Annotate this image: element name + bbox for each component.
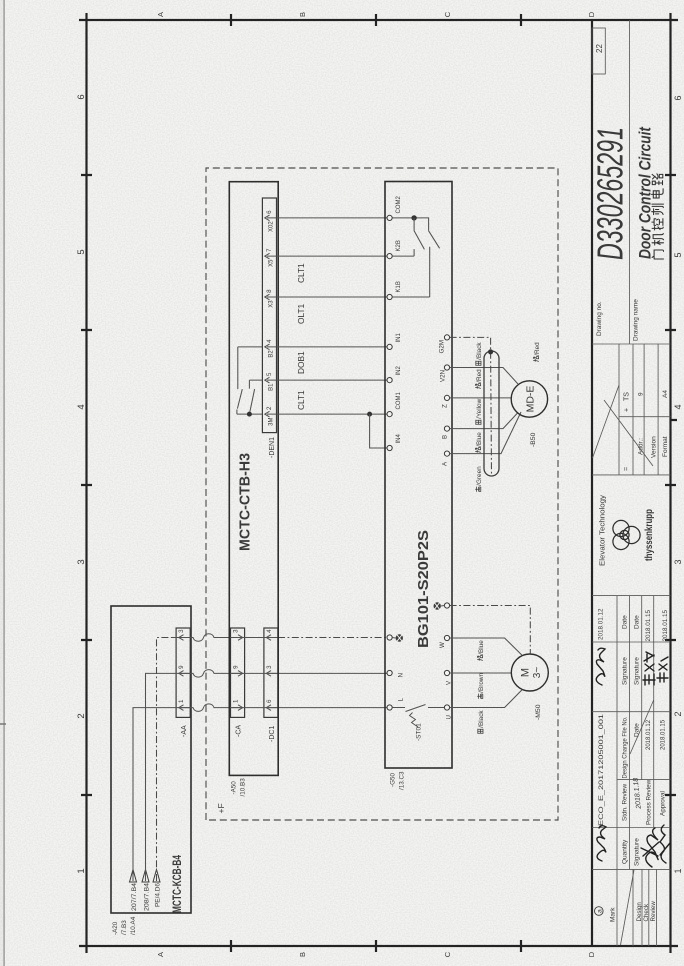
hanzi lu <box>652 174 663 185</box>
BG pin IN2 <box>387 377 392 382</box>
block MCTC-CTB-H3 (-A50) <box>229 182 278 776</box>
CTB internal net 3M <box>237 410 263 415</box>
svg-text:Date: Date <box>634 615 641 629</box>
BG pin K1B <box>387 294 392 299</box>
CTB contact blade OLT1 <box>250 389 255 412</box>
BG pin B <box>444 426 449 431</box>
svg-text:U: U <box>446 715 453 719</box>
label U wire black <box>478 710 485 734</box>
drawing name chinese 门机控制电路 <box>652 174 664 259</box>
svg-text:DOB1: DOB1 <box>296 351 306 374</box>
BG contact blade K1B <box>429 231 440 249</box>
svg-text:K2B: K2B <box>396 240 402 251</box>
label W wire blue <box>477 640 485 661</box>
svg-text:Signature: Signature <box>634 657 641 685</box>
svg-text:2: 2 <box>76 713 87 718</box>
wire X3/8 to K1B <box>277 296 387 298</box>
svg-text:1: 1 <box>673 868 683 873</box>
svg-text:COM1: COM1 <box>396 392 402 410</box>
svg-text:M: M <box>520 668 532 677</box>
svg-text:+: + <box>624 408 631 412</box>
svg-text:6: 6 <box>266 210 273 214</box>
svg-text:/Red: /Red <box>476 369 483 383</box>
svg-text:Version: Version <box>650 436 657 458</box>
mark symbol circled a <box>595 907 604 916</box>
BG internal branch to blade1 <box>413 218 415 231</box>
pins -DC1 (6,3,4) arrows up <box>266 635 277 711</box>
svg-text:6: 6 <box>673 95 683 100</box>
wire 3M/2 to COM1 <box>277 413 387 415</box>
BG pin COM2 <box>387 215 392 220</box>
svg-text:Format: Format <box>662 436 669 457</box>
encoder wire V2N red <box>450 368 518 385</box>
svg-text:TS: TS <box>624 392 631 401</box>
signature scribble sig r1 <box>596 648 605 685</box>
svg-text:B2: B2 <box>269 350 275 358</box>
svg-text:2018.01.15: 2018.01.15 <box>661 719 667 750</box>
frame ticks bottom edge <box>665 13 678 953</box>
block BG101-S20P2S (-G50) <box>385 182 452 769</box>
frame ticks side edges <box>231 14 521 952</box>
junction dot shield <box>488 349 493 354</box>
svg-text:=: = <box>624 467 631 471</box>
cable wire col2 (9/9/3 to N) <box>172 670 387 678</box>
svg-text:/10.A4: /10.A4 <box>130 916 137 935</box>
ruler numbers top <box>76 94 87 873</box>
svg-text:207/7.B4: 207/7.B4 <box>131 882 138 911</box>
svg-text:/Yellow: /Yellow <box>476 398 483 418</box>
svg-text:MCTC-CTB-H3: MCTC-CTB-H3 <box>238 453 254 551</box>
svg-text:B: B <box>298 952 307 957</box>
wire branch to IN4 <box>370 414 387 448</box>
svg-text:3M: 3M <box>269 418 275 426</box>
svg-text:IN4: IN4 <box>396 434 402 444</box>
version table diagonal 2 <box>604 400 653 466</box>
svg-text:/Red: /Red <box>534 342 541 356</box>
svg-text:/Brown: /Brown <box>478 672 485 692</box>
svg-text:W: W <box>439 642 446 648</box>
svg-text:5: 5 <box>76 249 87 254</box>
svg-text:X02: X02 <box>269 221 275 232</box>
frame ticks top edge <box>79 13 92 953</box>
label V wire brown <box>477 672 485 698</box>
off-page arrow 207 <box>130 870 137 883</box>
BG pin W <box>444 635 449 640</box>
svg-text:Approval: Approval <box>660 791 667 816</box>
svg-text:4: 4 <box>673 404 683 409</box>
svg-text:C: C <box>443 951 452 957</box>
diagonal slash eco column <box>630 700 654 754</box>
title block grid lines <box>592 20 671 946</box>
wire 207 <box>133 708 172 881</box>
motor -M50 <box>511 654 548 691</box>
designator -A50 <box>231 778 247 797</box>
hanzi kong <box>652 219 663 230</box>
screen dash-dot inside capsule <box>490 352 493 474</box>
cable wire col1 (1/1/6 to L) <box>172 704 387 712</box>
svg-text:4: 4 <box>76 404 87 409</box>
svg-text:Signature: Signature <box>621 657 628 685</box>
svg-text:9: 9 <box>637 392 644 396</box>
svg-text:/Black: /Black <box>478 710 485 728</box>
ruler numbers bottom <box>673 95 683 873</box>
label yellow <box>476 398 483 424</box>
version table diagonal 1 <box>593 385 620 458</box>
BG pin IN1 <box>387 344 392 349</box>
svg-text:-DEN1: -DEN1 <box>269 437 276 458</box>
svg-text:/Blue: /Blue <box>478 640 485 655</box>
label green <box>475 466 483 492</box>
motor shield dash-dot <box>450 606 531 654</box>
svg-text:-AA: -AA <box>181 725 188 737</box>
BG internal COM2 wire <box>392 218 428 231</box>
CTB contact blade CLT1 <box>237 389 242 409</box>
signature scribble quantity r1 <box>597 826 606 861</box>
ruler letters left <box>156 951 596 957</box>
svg-text:Date: Date <box>634 723 641 737</box>
svg-text:Drawing name: Drawing name <box>632 299 639 341</box>
svg-text:3: 3 <box>233 629 240 633</box>
svg-text:3~: 3~ <box>532 667 543 679</box>
svg-text:Stdn. Review: Stdn. Review <box>621 783 628 821</box>
svg-text:L: L <box>398 698 405 702</box>
boundary +F dashed rect <box>206 168 558 820</box>
encoder wire A green <box>450 412 521 454</box>
BG pin L <box>387 705 392 710</box>
svg-text:Addr.:: Addr.: <box>637 438 644 455</box>
encoder wire Z yellow <box>450 397 512 399</box>
svg-text:Elevator Technology: Elevator Technology <box>599 494 606 566</box>
signature scribble quantity r4 <box>641 828 659 867</box>
svg-text:8: 8 <box>266 289 273 293</box>
svg-text:G2M: G2M <box>439 340 446 353</box>
svg-text:Door Control Circuit: Door Control Circuit <box>636 126 654 259</box>
motor wire W blue <box>450 638 522 655</box>
shield earth symbol <box>434 602 445 609</box>
CTB contact fixed B2 <box>238 347 263 389</box>
hanzi dian <box>652 189 664 198</box>
off-page arrow 208 <box>142 870 149 883</box>
wire PE dash-dot <box>157 638 173 882</box>
svg-text:-A20: -A20 <box>112 921 119 935</box>
svg-text:2: 2 <box>266 406 273 410</box>
BG contact fixed K1B <box>392 247 430 297</box>
cable wire col3 PE (3/3/4 to PE) <box>172 634 278 642</box>
designator -G50 <box>390 771 406 790</box>
thermal actuator squiggle <box>410 713 419 728</box>
svg-text:3: 3 <box>673 559 683 564</box>
pins -DEN1 arrows up <box>265 215 276 417</box>
BG pin PE <box>387 635 392 640</box>
wire B1/5 to IN2 <box>277 379 387 381</box>
BG pin N <box>387 670 392 675</box>
cable screen capsule <box>484 351 499 476</box>
BG pin A <box>444 451 449 456</box>
svg-text:A4: A4 <box>662 390 669 398</box>
label black enc <box>476 342 483 366</box>
svg-text:X5: X5 <box>269 259 275 267</box>
junction dot COM2 <box>411 215 416 220</box>
svg-text:V2N: V2N <box>440 370 447 382</box>
thyssenkrupp rings logo <box>613 520 640 549</box>
terminal strip -AA <box>176 628 190 717</box>
BG internal switch -ST01 <box>392 705 444 712</box>
pin names -DEN1 <box>269 221 275 426</box>
svg-text:22: 22 <box>595 44 604 53</box>
svg-text:MD-E: MD-E <box>525 386 537 413</box>
svg-text:2018.01.15: 2018.01.15 <box>662 609 669 641</box>
svg-text:9: 9 <box>233 665 240 669</box>
svg-text:/Black: /Black <box>476 342 483 360</box>
svg-text:-B50: -B50 <box>530 432 537 447</box>
svg-text:1: 1 <box>76 868 87 873</box>
svg-text:X3: X3 <box>269 300 275 308</box>
svg-text:3: 3 <box>266 665 273 669</box>
scan edge line left <box>0 0 3 966</box>
wire PE lower dash-dot <box>278 637 387 639</box>
hanzi men <box>652 250 663 259</box>
svg-text:A: A <box>156 12 165 17</box>
pins -AA (1,9,3) <box>179 635 190 711</box>
svg-text:CLT1: CLT1 <box>296 263 306 283</box>
svg-text:Review: Review <box>650 901 657 922</box>
svg-text:BG101-S20P2S: BG101-S20P2S <box>415 530 432 648</box>
label blue enc <box>475 432 483 453</box>
signature scribble hanzi r5 <box>657 657 668 682</box>
svg-text:/10.B3: /10.B3 <box>240 778 247 797</box>
svg-text:6: 6 <box>266 699 273 703</box>
motor wire U black <box>450 690 522 708</box>
svg-text:Quantity: Quantity <box>621 839 628 864</box>
pin numbers -DEN1 <box>266 210 273 410</box>
terminal strip -CA <box>231 628 245 717</box>
BG pin COM1 <box>387 411 392 416</box>
fold mark top <box>0 723 6 725</box>
BG pin IN4 <box>387 445 392 450</box>
junction dot 3M/B1 blade <box>247 412 252 417</box>
label red enc <box>475 369 483 389</box>
svg-text:4: 4 <box>266 629 273 633</box>
BG contact blade K2B <box>414 231 424 250</box>
terminal strip -DEN1 <box>262 198 276 433</box>
svg-text:a: a <box>597 909 604 913</box>
BG pin G2M <box>444 335 449 340</box>
ruler letters right <box>156 11 596 17</box>
svg-text:A: A <box>156 952 165 957</box>
svg-text:K1B: K1B <box>396 281 402 292</box>
svg-text:1: 1 <box>178 699 185 703</box>
svg-text:Check: Check <box>643 903 650 921</box>
svg-text:D: D <box>587 951 596 957</box>
wire X5/7 to K2B <box>277 255 387 257</box>
svg-text:/13.C3: /13.C3 <box>399 771 406 790</box>
signature scribble hanzi r4 <box>643 652 655 685</box>
svg-text:1: 1 <box>233 699 240 703</box>
svg-text:CLT1: CLT1 <box>296 390 306 410</box>
svg-text:-G50: -G50 <box>390 773 397 787</box>
svg-text:-DC1: -DC1 <box>269 726 276 742</box>
svg-text:Signature: Signature <box>634 838 641 866</box>
svg-text:Date: Date <box>621 615 628 629</box>
svg-text:2018.01.12: 2018.01.12 <box>598 608 605 640</box>
svg-text:208/7.B4: 208/7.B4 <box>143 882 150 911</box>
svg-text:+F: +F <box>216 803 226 813</box>
svg-text:3: 3 <box>178 629 185 633</box>
svg-text:2018.01.12: 2018.01.12 <box>646 719 652 750</box>
svg-text:Drawing no.: Drawing no. <box>596 301 603 336</box>
block MCTC-KCB-B4 (-A20) <box>111 606 191 913</box>
encoder wire B blue <box>450 413 518 429</box>
CTB contact fixed B1 <box>249 380 262 389</box>
svg-text:Z: Z <box>442 404 449 408</box>
svg-text:C: C <box>443 11 452 17</box>
svg-text:9: 9 <box>178 665 185 669</box>
motor wire V brown <box>450 672 511 674</box>
svg-text:IN2: IN2 <box>396 366 402 376</box>
svg-text:/7.B3: /7.B3 <box>121 920 128 935</box>
wire X02/6 to COM2 <box>277 217 387 219</box>
terminal strip -DC1 <box>264 628 278 717</box>
BG pin U <box>444 705 449 710</box>
svg-text:-A50: -A50 <box>231 781 238 795</box>
svg-text:7: 7 <box>266 248 273 252</box>
label red lone <box>533 342 541 362</box>
hanzi zhi <box>652 204 664 215</box>
svg-text:Mark: Mark <box>610 907 617 922</box>
off-page arrow PE <box>153 870 160 883</box>
svg-text:PE/4.D6: PE/4.D6 <box>154 882 161 907</box>
svg-text:ECO_E_20171205001_001: ECO_E_20171205001_001 <box>598 714 605 826</box>
title block top line <box>591 20 593 946</box>
svg-text:B: B <box>298 12 307 17</box>
svg-text:2: 2 <box>673 711 683 716</box>
svg-text:5: 5 <box>266 372 273 376</box>
svg-text:D: D <box>587 11 596 17</box>
svg-text:Process Review: Process Review <box>646 779 653 825</box>
wire B2/4 to IN1 <box>277 346 387 348</box>
svg-text:N: N <box>398 673 405 677</box>
svg-text:/Blue: /Blue <box>476 432 483 447</box>
svg-text:D330265291: D330265291 <box>590 127 631 260</box>
pins -CA (1,9,3) arrows down <box>232 635 243 711</box>
wire 208 <box>146 673 173 881</box>
BG pin V <box>444 670 449 675</box>
svg-text:Design Change File No.: Design Change File No. <box>621 716 628 778</box>
svg-text:3: 3 <box>76 559 87 564</box>
svg-text:B1: B1 <box>269 383 275 391</box>
BG contact fixed K2B <box>392 249 414 256</box>
encoder shield G2M dash-dot <box>450 337 491 349</box>
scan noise <box>0 0 1 1</box>
svg-text:OLT1: OLT1 <box>296 303 306 324</box>
svg-text:/Green: /Green <box>476 466 483 486</box>
svg-text:2018.01.15: 2018.01.15 <box>645 609 652 641</box>
BG pin K2B <box>387 253 392 258</box>
svg-text:Design: Design <box>636 902 643 922</box>
svg-text:5: 5 <box>673 252 683 257</box>
encoder MD-E (-B50) <box>511 381 547 417</box>
earth symbol PE <box>392 634 403 641</box>
junction dot COM1/IN4 <box>367 412 372 417</box>
svg-text:6: 6 <box>76 94 87 99</box>
svg-text:IN1: IN1 <box>396 333 402 343</box>
svg-text:-CA: -CA <box>236 725 243 737</box>
svg-text:4: 4 <box>266 339 273 343</box>
signature scribble quantity r5 <box>660 825 670 863</box>
hanzi ji <box>652 234 664 246</box>
svg-text:MCTC-KCB-B4: MCTC-KCB-B4 <box>170 855 184 913</box>
BG pin Z <box>444 395 449 400</box>
BG pin V2N <box>444 365 449 370</box>
svg-text:COM2: COM2 <box>396 196 402 214</box>
BG shield clamp pin <box>444 603 449 608</box>
diagonal slash mark column <box>621 870 635 945</box>
svg-text:-M50: -M50 <box>535 704 542 720</box>
svg-text:thyssenkrupp: thyssenkrupp <box>644 509 655 561</box>
designator -A20 <box>112 916 137 935</box>
22 box <box>592 28 605 74</box>
svg-text:B: B <box>442 435 449 439</box>
